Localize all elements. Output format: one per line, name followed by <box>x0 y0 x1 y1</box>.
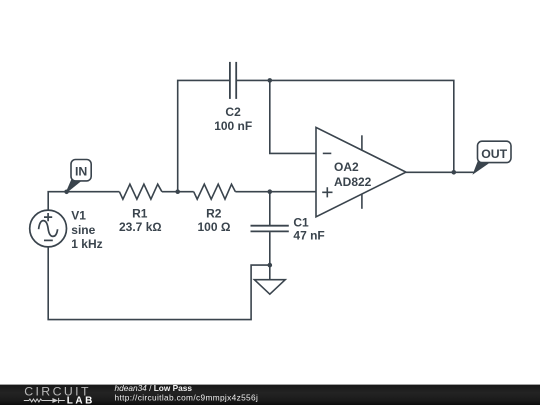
wire op-amp output <box>406 171 474 173</box>
net flag OUT <box>474 141 512 173</box>
op-amp plus input symbol <box>322 187 332 197</box>
label V1 <box>71 209 102 251</box>
voltage source V1 <box>30 210 67 247</box>
svg-text:OUT: OUT <box>481 147 507 161</box>
resistor R1 <box>119 184 161 199</box>
svg-text:100 nF: 100 nF <box>214 119 252 133</box>
wire ground node left and bottom rail to V1 <box>48 247 270 320</box>
svg-text:23.7 kΩ: 23.7 kΩ <box>119 220 162 234</box>
node IN junction dot <box>64 190 69 195</box>
svg-text:47 nF: 47 nF <box>293 228 324 242</box>
wire node A up to C2 left <box>178 80 229 191</box>
capacitor C2 <box>230 62 236 99</box>
svg-text:1 kHz: 1 kHz <box>71 237 102 251</box>
node C junction dot <box>268 189 273 194</box>
svg-text:C2: C2 <box>225 105 241 119</box>
label C1 <box>293 215 324 242</box>
CircuitLab logo glyph diode <box>52 398 58 403</box>
svg-text:IN: IN <box>75 164 87 178</box>
wire node C down to C1 <box>269 192 271 225</box>
ground junction dot <box>268 263 273 268</box>
node B junction dot <box>268 78 273 83</box>
CircuitLab logo glyph wire and resistor <box>24 398 65 403</box>
wire C2 right to feedback corner down to output <box>237 80 454 172</box>
svg-text:V1: V1 <box>71 209 86 223</box>
svg-text:OA2: OA2 <box>334 160 359 174</box>
wire V1 top to R1 <box>48 192 119 211</box>
svg-text:AD822: AD822 <box>334 175 372 189</box>
label C2 <box>214 105 252 133</box>
svg-text:C1: C1 <box>293 215 309 229</box>
wire node B down to inverting input <box>270 80 316 153</box>
footer bar <box>0 385 540 405</box>
svg-text:sine: sine <box>71 223 95 237</box>
node A junction dot <box>175 189 180 194</box>
net flag IN <box>66 160 91 193</box>
node OUT junction dot <box>452 170 457 175</box>
op-amp power pin bottom <box>361 194 363 208</box>
wire C1 bottom to ground node <box>269 232 271 265</box>
resistor R2 <box>194 184 236 199</box>
capacitor C1 <box>251 226 289 232</box>
svg-text:R1: R1 <box>132 207 148 221</box>
svg-text:http://circuitlab.com/c9mmpjx4: http://circuitlab.com/c9mmpjx4z556j <box>115 392 259 402</box>
label R1 <box>119 207 162 234</box>
ground <box>254 265 285 294</box>
label OA2 AD822 <box>334 160 372 189</box>
op-amp power pin top <box>361 135 363 150</box>
svg-text:R2: R2 <box>206 207 222 221</box>
op-amp U1 triangle <box>316 127 406 216</box>
svg-text:LAB: LAB <box>67 395 95 405</box>
op-amp minus input symbol <box>323 152 332 154</box>
label R2 <box>198 207 231 234</box>
svg-text:100 Ω: 100 Ω <box>198 220 231 234</box>
wire R1 to R2 <box>162 191 194 193</box>
wire R2 to non-inverting input <box>235 191 316 193</box>
